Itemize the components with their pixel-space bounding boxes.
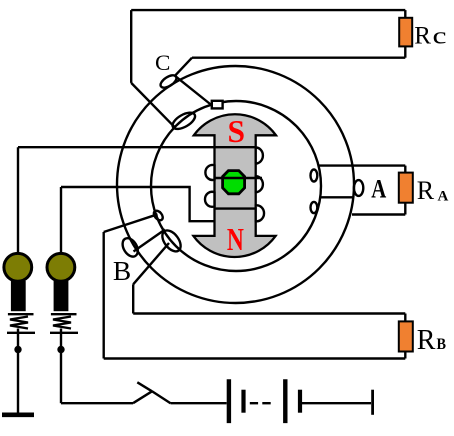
svg-text:A: A [371,173,386,203]
svg-text:R: R [414,23,431,50]
svg-text:c: c [433,24,447,50]
svg-text:R: R [417,325,436,356]
svg-text:S: S [228,114,246,149]
svg-text:A: A [438,188,449,204]
svg-text:B: B [113,255,131,286]
svg-text:R: R [417,176,435,205]
svg-text:B: B [437,336,447,353]
svg-text:C: C [155,50,170,75]
svg-text:N: N [227,222,244,257]
